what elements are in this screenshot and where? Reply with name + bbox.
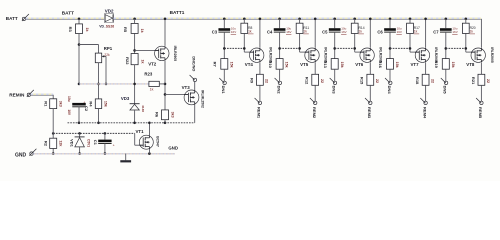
wire bbox=[78, 34, 80, 84]
connector BATT bbox=[22, 17, 25, 20]
resistor R8 bbox=[241, 23, 248, 33]
wire bbox=[98, 63, 100, 99]
wire node line bbox=[79, 83, 149, 85]
svg-text:22: 22 bbox=[320, 79, 324, 83]
junction bbox=[333, 47, 336, 50]
svg-text:R7: R7 bbox=[213, 62, 218, 68]
resistor R18 bbox=[422, 74, 429, 85]
resistor R10 bbox=[276, 59, 283, 70]
svg-text:3k3: 3k3 bbox=[58, 101, 62, 107]
resistor R11 bbox=[296, 23, 303, 33]
junction bbox=[78, 83, 81, 86]
connector REM4 bbox=[424, 101, 427, 104]
svg-text:R1: R1 bbox=[43, 101, 48, 107]
svg-text:1k: 1k bbox=[303, 30, 307, 34]
wire bbox=[243, 19, 245, 23]
wire VT2 gate bbox=[135, 49, 159, 51]
svg-text:REM3: REM3 bbox=[367, 107, 372, 119]
capacitor C7 value underline bbox=[452, 33, 457, 35]
wire bbox=[149, 149, 151, 154]
wire node line 2 bbox=[53, 132, 135, 134]
svg-text:+: + bbox=[113, 143, 115, 147]
wire bbox=[52, 109, 54, 139]
wire bbox=[480, 63, 482, 75]
svg-text:3k3: 3k3 bbox=[170, 112, 174, 118]
wire gate bbox=[244, 51, 253, 53]
connector REM2 bbox=[314, 101, 317, 104]
svg-text:VT2: VT2 bbox=[148, 62, 157, 67]
svg-text:22: 22 bbox=[486, 79, 490, 83]
wire bbox=[389, 69, 391, 81]
wire bbox=[445, 69, 447, 81]
wire bbox=[243, 33, 245, 52]
svg-text:R21: R21 bbox=[471, 77, 476, 85]
svg-text:22: 22 bbox=[375, 79, 379, 83]
resistor R6 bbox=[162, 110, 169, 120]
svg-text:22k: 22k bbox=[104, 53, 110, 57]
wire VT1 gate bbox=[135, 144, 144, 146]
resistor R14 bbox=[351, 23, 358, 33]
connector DN4 bbox=[389, 81, 392, 84]
svg-text:1k: 1k bbox=[359, 30, 363, 34]
junction bbox=[424, 18, 427, 21]
svg-text:R3: R3 bbox=[68, 27, 73, 33]
svg-text:15k: 15k bbox=[285, 62, 289, 68]
junction bbox=[164, 83, 167, 86]
wire bbox=[223, 69, 225, 81]
junction bbox=[133, 49, 136, 52]
wire bbox=[52, 148, 54, 153]
junction bbox=[409, 18, 412, 21]
wire bbox=[279, 32, 281, 59]
svg-text:1k: 1k bbox=[248, 30, 252, 34]
wire bbox=[369, 19, 371, 48]
resistor R14 value underline bbox=[358, 33, 364, 35]
capacitor C2 bbox=[72, 103, 86, 106]
wire bbox=[334, 19, 336, 28]
resistor R13 bbox=[331, 59, 338, 70]
svg-text:1k: 1k bbox=[470, 30, 474, 34]
wire bbox=[259, 19, 261, 48]
junction bbox=[369, 18, 372, 21]
wire bbox=[134, 133, 136, 145]
svg-text:R19: R19 bbox=[434, 61, 439, 69]
wire bbox=[425, 85, 427, 101]
junction bbox=[333, 18, 336, 21]
resistor R3 bbox=[76, 24, 83, 34]
svg-text:1k: 1k bbox=[414, 30, 418, 34]
capacitor C5 value underline bbox=[341, 33, 346, 35]
svg-text:10u: 10u bbox=[67, 96, 71, 102]
junction bbox=[97, 83, 100, 86]
resistor R2 bbox=[50, 138, 57, 148]
junction bbox=[133, 83, 136, 86]
wire bbox=[334, 32, 336, 59]
junction bbox=[243, 18, 246, 21]
svg-text:R6: R6 bbox=[154, 112, 159, 118]
connector DN2 bbox=[278, 81, 281, 84]
svg-text:16V: 16V bbox=[286, 30, 291, 34]
junction bbox=[445, 47, 448, 50]
connector REM1 bbox=[258, 101, 261, 104]
junction bbox=[353, 18, 356, 21]
svg-text:VT7: VT7 bbox=[411, 62, 420, 67]
svg-text:VT5: VT5 bbox=[300, 62, 309, 67]
junction bbox=[389, 47, 392, 50]
svg-text:16V: 16V bbox=[397, 30, 402, 34]
junction bbox=[465, 18, 468, 21]
svg-text:REMIN: REMIN bbox=[9, 93, 25, 98]
svg-text:VT1: VT1 bbox=[136, 129, 145, 134]
svg-text:C2: C2 bbox=[84, 106, 89, 112]
capacitor C6 bbox=[384, 28, 396, 31]
svg-text:VD2: VD2 bbox=[105, 9, 114, 14]
wire bbox=[164, 61, 166, 110]
svg-text:VT3: VT3 bbox=[182, 85, 191, 90]
resistor R15 bbox=[367, 74, 374, 85]
svg-text:R9: R9 bbox=[249, 78, 254, 84]
wire bbox=[480, 19, 482, 48]
transistor VT3 bbox=[184, 90, 199, 105]
wire bbox=[104, 144, 106, 154]
svg-text:GND: GND bbox=[168, 146, 178, 151]
wire bbox=[445, 19, 447, 28]
junction bbox=[78, 43, 81, 46]
junction bbox=[78, 18, 81, 21]
wire bbox=[223, 19, 225, 28]
wire mid rail bbox=[68, 122, 195, 124]
wire bbox=[134, 65, 136, 104]
wire bbox=[425, 63, 427, 75]
svg-text:22: 22 bbox=[265, 79, 269, 83]
wire bbox=[480, 85, 482, 101]
junction bbox=[298, 18, 301, 21]
svg-text:VT4: VT4 bbox=[245, 62, 254, 67]
transistor VT8 bbox=[471, 48, 485, 62]
junction bbox=[133, 18, 136, 21]
svg-text:15k: 15k bbox=[395, 62, 399, 68]
svg-text:1k: 1k bbox=[85, 28, 89, 32]
junction bbox=[243, 47, 246, 50]
svg-text:IRLR2905: IRLR2905 bbox=[490, 47, 494, 63]
junction bbox=[409, 47, 412, 50]
capacitor C6 value underline bbox=[396, 33, 401, 35]
junction bbox=[78, 152, 81, 155]
wire REMIN bbox=[31, 94, 54, 96]
junction bbox=[52, 152, 55, 155]
wire bbox=[354, 33, 356, 52]
wire VT3 gate bbox=[165, 93, 188, 95]
wire bbox=[334, 69, 336, 81]
svg-text:15k: 15k bbox=[451, 62, 455, 68]
transistor VT4 bbox=[250, 48, 264, 62]
wire bbox=[259, 85, 261, 101]
connector DN5 bbox=[444, 81, 447, 84]
wire bbox=[465, 33, 467, 52]
resistor R1 bbox=[50, 99, 57, 109]
svg-text:R16: R16 bbox=[378, 61, 383, 69]
resistor R17 bbox=[407, 23, 414, 33]
wire bbox=[465, 19, 467, 23]
wire bbox=[134, 19, 136, 24]
junction bbox=[389, 18, 392, 21]
svg-text:1k: 1k bbox=[141, 60, 145, 64]
resistor R17 value underline bbox=[414, 33, 420, 35]
svg-text:R18: R18 bbox=[415, 77, 420, 85]
resistor R5 bbox=[131, 23, 138, 33]
resistor R7 bbox=[221, 59, 228, 70]
wire bbox=[314, 85, 316, 101]
wire stub bbox=[335, 47, 355, 49]
junction bbox=[52, 132, 55, 135]
transistor VT1 bbox=[139, 135, 153, 149]
wire bbox=[223, 32, 225, 59]
junction bbox=[97, 122, 100, 125]
wire bbox=[279, 19, 281, 28]
diode VD1 bbox=[75, 136, 85, 138]
junction bbox=[314, 18, 317, 21]
svg-text:16V: 16V bbox=[67, 109, 71, 116]
wire bbox=[445, 32, 447, 59]
wire bbox=[314, 63, 316, 75]
transistor VT5 bbox=[305, 48, 319, 62]
wire stub bbox=[446, 47, 466, 49]
resistor R23 bbox=[149, 81, 159, 86]
wire bbox=[409, 19, 411, 23]
resistor R8 value underline bbox=[248, 33, 254, 35]
svg-text:22: 22 bbox=[430, 79, 434, 83]
connector DN1 bbox=[223, 81, 226, 84]
svg-text:R15: R15 bbox=[360, 77, 365, 85]
connector REMIN bbox=[27, 93, 30, 96]
junction bbox=[104, 152, 107, 155]
junction bbox=[223, 18, 226, 21]
svg-text:DN4: DN4 bbox=[387, 86, 392, 95]
resistor R16 bbox=[387, 59, 394, 70]
svg-text:15k: 15k bbox=[229, 62, 233, 68]
svg-text:16V: 16V bbox=[341, 30, 346, 34]
wire bbox=[369, 85, 371, 101]
wire bbox=[105, 56, 107, 84]
junction bbox=[104, 132, 107, 135]
diode VD3 bbox=[130, 103, 140, 105]
wire gate bbox=[300, 51, 309, 53]
wire gate bbox=[355, 51, 364, 53]
connector DNC/NO bbox=[193, 78, 196, 81]
wire BATT1 rail bbox=[113, 18, 481, 20]
svg-text:DN2: DN2 bbox=[277, 86, 282, 95]
wire bbox=[78, 19, 80, 24]
junction bbox=[278, 47, 281, 50]
connector REM3 bbox=[369, 101, 372, 104]
svg-text:C6: C6 bbox=[377, 30, 383, 35]
svg-text:BATT: BATT bbox=[6, 16, 18, 21]
svg-text:R13: R13 bbox=[323, 61, 328, 69]
wire BATT bbox=[26, 18, 105, 20]
wire bbox=[52, 95, 54, 99]
potentiometer RP1 bbox=[95, 53, 101, 63]
capacitor C1 bbox=[98, 140, 111, 143]
capacitor C5 bbox=[329, 28, 341, 31]
svg-text:DN3: DN3 bbox=[332, 86, 337, 95]
svg-text:C1: C1 bbox=[93, 140, 98, 146]
wire bbox=[409, 33, 411, 52]
wire bbox=[354, 19, 356, 23]
svg-text:16V: 16V bbox=[231, 30, 236, 34]
junction bbox=[78, 132, 81, 135]
svg-text:VD1: VD1 bbox=[69, 139, 74, 148]
capacitor C7 bbox=[440, 28, 452, 31]
capacitor C4 value underline bbox=[286, 33, 291, 35]
resistor R21 bbox=[478, 74, 485, 85]
svg-text:REM4: REM4 bbox=[422, 107, 427, 119]
wire bbox=[98, 45, 100, 54]
wire bbox=[259, 63, 261, 75]
capacitor C4 bbox=[274, 28, 286, 31]
wire bbox=[389, 19, 391, 28]
svg-text:BATT: BATT bbox=[62, 11, 74, 16]
junction bbox=[223, 47, 226, 50]
svg-text:BATT1: BATT1 bbox=[170, 10, 185, 15]
wire bbox=[299, 33, 301, 52]
svg-text:1k: 1k bbox=[150, 87, 154, 91]
wire bbox=[299, 19, 301, 23]
junction bbox=[259, 18, 262, 21]
svg-text:1k: 1k bbox=[140, 29, 144, 33]
wire stub bbox=[390, 47, 410, 49]
junction bbox=[78, 122, 81, 125]
capacitor C3 bbox=[218, 28, 230, 31]
junction bbox=[148, 122, 151, 125]
svg-text:REM2: REM2 bbox=[312, 107, 317, 119]
wire gate bbox=[466, 51, 475, 53]
wire bbox=[159, 83, 165, 85]
connector DN3 bbox=[333, 81, 336, 84]
svg-text:C7: C7 bbox=[433, 30, 439, 35]
wire stub bbox=[224, 47, 244, 49]
wire bbox=[164, 19, 166, 46]
resistor R22 bbox=[131, 54, 138, 65]
junction bbox=[164, 122, 167, 125]
wire bbox=[149, 123, 151, 136]
svg-text:DNC/NO: DNC/NO bbox=[192, 56, 196, 71]
svg-text:R12: R12 bbox=[305, 77, 310, 85]
svg-text:DN1: DN1 bbox=[221, 86, 226, 95]
resistor R11 value underline bbox=[303, 33, 309, 35]
junction bbox=[298, 47, 301, 50]
wire bbox=[134, 33, 136, 53]
svg-text:12k: 12k bbox=[59, 140, 63, 146]
resistor R4 bbox=[95, 99, 101, 109]
svg-text:15k: 15k bbox=[340, 62, 344, 68]
svg-text:VT8: VT8 bbox=[466, 62, 475, 67]
svg-text:REM1: REM1 bbox=[257, 107, 262, 119]
wire bbox=[369, 63, 371, 75]
junction bbox=[278, 18, 281, 21]
junction bbox=[164, 93, 167, 96]
wire bbox=[134, 110, 136, 123]
svg-text:BC547: BC547 bbox=[156, 136, 160, 147]
wire bbox=[314, 19, 316, 48]
svg-text:R5: R5 bbox=[123, 27, 128, 33]
transistor VT7 bbox=[415, 48, 429, 62]
connector REM5 bbox=[480, 101, 483, 104]
ground bbox=[125, 154, 127, 161]
junction bbox=[148, 152, 151, 155]
resistor R12 bbox=[312, 74, 319, 85]
wire bbox=[164, 120, 166, 123]
svg-text:VT6: VT6 bbox=[355, 62, 364, 67]
resistor R20 value underline bbox=[470, 33, 476, 35]
wire bbox=[79, 147, 81, 154]
connector GND bbox=[30, 152, 33, 155]
junction bbox=[133, 122, 136, 125]
transistor VT6 bbox=[360, 48, 374, 62]
junction bbox=[465, 47, 468, 50]
svg-text:IRLML2502: IRLML2502 bbox=[200, 90, 204, 108]
junction bbox=[105, 83, 108, 86]
svg-text:DN5: DN5 bbox=[443, 86, 448, 95]
junction bbox=[445, 18, 448, 21]
wire bbox=[279, 69, 281, 81]
svg-text:R23: R23 bbox=[144, 72, 152, 77]
wire bbox=[78, 107, 80, 123]
svg-text:VD_SS26: VD_SS26 bbox=[99, 25, 114, 29]
wire bbox=[194, 105, 196, 123]
svg-text:+: + bbox=[83, 100, 85, 104]
wire bbox=[79, 44, 99, 46]
resistor R9 bbox=[257, 74, 264, 85]
svg-text:C3: C3 bbox=[212, 30, 218, 35]
svg-text:C5V1: C5V1 bbox=[86, 139, 90, 147]
wire bbox=[425, 19, 427, 48]
diode VD2 bbox=[104, 14, 113, 23]
wire bbox=[104, 133, 106, 139]
svg-text:VD3: VD3 bbox=[121, 96, 130, 101]
resistor R19 bbox=[442, 59, 449, 70]
capacitor C3 value underline bbox=[231, 33, 236, 35]
wire gate bbox=[410, 51, 419, 53]
wire GND rail bbox=[33, 153, 175, 155]
wire bbox=[79, 133, 81, 137]
svg-text:4148: 4148 bbox=[141, 105, 145, 112]
svg-text:16V: 16V bbox=[452, 30, 457, 34]
svg-text:GND: GND bbox=[15, 153, 27, 159]
wire bbox=[98, 109, 100, 123]
svg-text:C5: C5 bbox=[322, 30, 328, 35]
wire bbox=[194, 82, 196, 90]
svg-text:R10: R10 bbox=[268, 61, 273, 69]
wire stub bbox=[280, 47, 300, 49]
svg-text:RP1: RP1 bbox=[104, 46, 113, 51]
resistor R20 bbox=[462, 23, 469, 33]
svg-text:R22: R22 bbox=[125, 57, 130, 65]
svg-text:15k: 15k bbox=[104, 101, 108, 107]
junction bbox=[353, 47, 356, 50]
transistor VT2 bbox=[155, 46, 169, 60]
wire bbox=[389, 32, 391, 59]
svg-text:C4: C4 bbox=[267, 30, 273, 35]
svg-text:REM5: REM5 bbox=[478, 107, 483, 119]
junction bbox=[164, 18, 167, 21]
svg-text:R2: R2 bbox=[43, 141, 48, 147]
svg-text:IRLR2905: IRLR2905 bbox=[173, 46, 177, 62]
